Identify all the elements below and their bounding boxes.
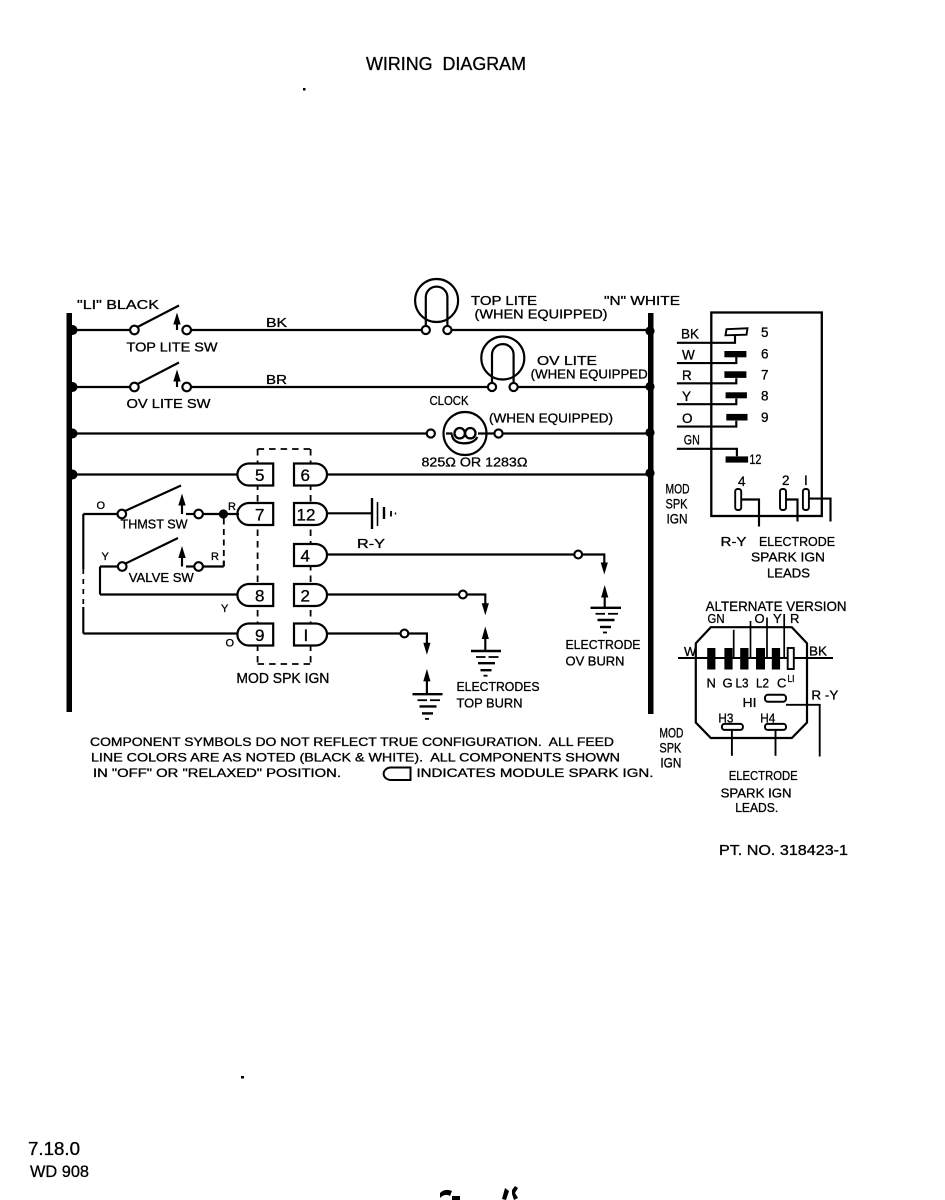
junction dots left rail <box>68 325 78 480</box>
wire row3 rail to clock <box>72 432 427 434</box>
svg-text:7: 7 <box>761 368 769 383</box>
alternate pin H4 <box>760 711 786 730</box>
svg-text:GN: GN <box>708 611 725 626</box>
svg-text:ELECTRODE: ELECTRODE <box>729 768 798 783</box>
svg-text:12: 12 <box>749 452 761 467</box>
svg-text:SPK: SPK <box>666 496 689 512</box>
svg-text:INDICATES MODULE SPARK IGN.: INDICATES MODULE SPARK IGN. <box>417 766 654 780</box>
svg-text:MOD: MOD <box>659 725 683 741</box>
alternate wire H1 to R-Y <box>786 705 820 757</box>
svg-text:SPK: SPK <box>659 740 682 756</box>
svg-text:L3: L3 <box>736 676 749 691</box>
terminal circle on pin1 lead <box>401 630 409 638</box>
alternate wire stub 2 <box>750 621 752 658</box>
svg-text:L2: L2 <box>756 676 769 691</box>
svg-text:5: 5 <box>761 325 769 340</box>
svg-text:WD 908: WD 908 <box>30 1162 89 1181</box>
switch VALVE SW <box>100 538 224 585</box>
wire row1 switch to lamp, label BK <box>191 329 422 331</box>
switch OV LITE SW <box>127 363 212 412</box>
alternate pin N <box>707 648 715 670</box>
connector pin 4 <box>735 474 746 510</box>
svg-text:SPARK IGN: SPARK IGN <box>751 550 825 565</box>
svg-text:C: C <box>777 676 786 691</box>
bullet module-pin symbol in note <box>384 768 411 781</box>
svg-text:8: 8 <box>255 587 264 606</box>
alternate pin L2 <box>756 648 765 670</box>
clock motor CLOCK <box>422 393 614 470</box>
lamp OV LITE <box>481 337 647 392</box>
wire pin 2 lead <box>327 593 460 595</box>
spark gap arrow down OV burn <box>601 563 608 575</box>
spark gap arrow down pin1 <box>423 643 430 655</box>
svg-text:I: I <box>804 473 808 488</box>
module pin 9 <box>237 624 273 646</box>
wire pin 4 R-Y lead <box>327 553 575 555</box>
wire pin 12 to chassis ground <box>327 512 372 514</box>
svg-text:ELECTRODE: ELECTRODE <box>759 534 835 549</box>
svg-text:IGN: IGN <box>660 755 681 771</box>
svg-text:"LI" BLACK: "LI" BLACK <box>77 297 159 312</box>
connector wire R <box>677 368 736 383</box>
svg-text:LI: LI <box>788 674 795 685</box>
svg-text:TOP BURN: TOP BURN <box>457 696 523 711</box>
svg-text:6: 6 <box>301 466 310 485</box>
alternate pin L3 <box>740 648 748 670</box>
svg-text:8: 8 <box>761 389 769 404</box>
svg-text:BK: BK <box>809 644 827 659</box>
alternate connector octagon outline <box>696 627 807 738</box>
connector pin 2 <box>780 473 790 510</box>
module pin 6 <box>294 464 327 486</box>
wire row1 lamp to right rail <box>452 329 650 331</box>
connector pin 7 <box>724 368 768 383</box>
wire pin1 lead corner down <box>408 634 427 645</box>
wire row1 rail to switch <box>72 329 130 331</box>
svg-text:O: O <box>755 611 765 626</box>
wire pin 1 lead <box>327 632 401 634</box>
connector pin 6 <box>724 347 768 362</box>
svg-text:ELECTRODE: ELECTRODE <box>566 637 641 652</box>
svg-text:7.18.0: 7.18.0 <box>28 1139 80 1159</box>
alternate label MOD SPK IGN <box>659 725 683 771</box>
module pin 7 <box>237 503 273 525</box>
switch TOP LITE SW <box>127 306 219 355</box>
svg-text:5: 5 <box>255 466 264 485</box>
connector wire from pin 4 <box>741 500 759 527</box>
module pin 12 <box>294 503 327 525</box>
svg-text:(WHEN EQUIPPED): (WHEN EQUIPPED) <box>489 411 613 426</box>
alternate pin H1 <box>743 695 787 710</box>
svg-text:O: O <box>682 411 693 426</box>
svg-text:(WHEN EQUIPPED: (WHEN EQUIPPED <box>531 367 648 382</box>
alternate pin G <box>724 648 732 670</box>
terminal circle on pin2 lead <box>459 591 467 599</box>
svg-text:Y: Y <box>102 551 110 563</box>
svg-text:OV LITE SW: OV LITE SW <box>127 396 212 411</box>
svg-text:7: 7 <box>255 506 264 525</box>
svg-text:THMST SW: THMST SW <box>121 517 189 532</box>
connector pin 1 <box>803 473 809 510</box>
ground electrode top burn <box>471 651 501 676</box>
svg-text:BK: BK <box>266 315 287 330</box>
switch THMST SW <box>83 486 239 532</box>
svg-text:(WHEN EQUIPPED): (WHEN EQUIPPED) <box>475 307 608 322</box>
svg-text:PT. NO. 318423-1: PT. NO. 318423-1 <box>719 842 848 859</box>
wire pin2 lead corner down <box>467 595 486 605</box>
svg-text:ELECTRODES: ELECTRODES <box>457 679 540 694</box>
svg-text:2: 2 <box>782 473 790 488</box>
connector pin 12 <box>726 452 762 467</box>
svg-text:R -Y: R -Y <box>811 688 838 703</box>
connector label MOD SPK IGN <box>666 481 690 527</box>
svg-text:MOD SPK IGN: MOD SPK IGN <box>236 671 329 687</box>
svg-text:BK: BK <box>681 327 699 342</box>
svg-text:R-Y: R-Y <box>721 534 747 549</box>
connector wire from pin 2 <box>786 500 798 522</box>
svg-text:CLOCK: CLOCK <box>430 393 469 408</box>
junction dots right rail <box>645 326 654 477</box>
svg-text:WIRING DIAGRAM: WIRING DIAGRAM <box>366 54 526 74</box>
wire R-Y lead corner down <box>582 555 604 565</box>
alternate pin C <box>772 648 780 670</box>
ground electrode OV burn <box>591 608 622 633</box>
connector wire from pin 1 <box>809 499 831 522</box>
note text block <box>90 735 654 780</box>
svg-text:GN: GN <box>684 432 700 447</box>
spark gap arrow up OV burn <box>601 585 608 608</box>
svg-text:Y: Y <box>773 611 782 626</box>
alternate pin H3 <box>718 711 743 730</box>
module pin 4 <box>294 544 327 566</box>
alternate wire Y stub <box>783 614 785 658</box>
terminal circle on R-Y lead <box>574 551 582 559</box>
svg-text:O: O <box>97 500 106 512</box>
alternate pin LI hollow <box>788 648 794 669</box>
svg-text:2: 2 <box>301 587 310 606</box>
alternate wire W entry <box>678 657 708 659</box>
lamp TOP LITE <box>415 279 607 334</box>
chassis ground at pin 12 <box>372 498 396 529</box>
ground electrode pin1 <box>413 694 443 719</box>
alternate wire O stub <box>766 618 768 659</box>
module MOD SPK IGN dashed outline <box>258 449 311 664</box>
wire row4 rail to module pin5 <box>72 473 239 475</box>
svg-text:IGN: IGN <box>667 511 688 527</box>
svg-text:Y: Y <box>682 389 691 404</box>
svg-text:"N" WHITE: "N" WHITE <box>604 293 680 308</box>
svg-text:R: R <box>682 368 692 383</box>
module pin 8 <box>237 584 273 606</box>
spark gap arrow up top burn <box>482 627 489 651</box>
svg-text:HI: HI <box>743 695 757 710</box>
svg-text:OV BURN: OV BURN <box>566 654 625 669</box>
connector wire Y <box>677 389 736 404</box>
wire row3 clock to right rail <box>503 432 649 434</box>
wire Y branch down to pin 8 row <box>100 567 239 616</box>
svg-text:4: 4 <box>738 474 746 489</box>
svg-text:LINE COLORS ARE AS NOTED (BLAC: LINE COLORS ARE AS NOTED (BLACK & WHITE)… <box>91 751 620 765</box>
spark gap arrow down top burn <box>482 603 489 615</box>
svg-text:G: G <box>723 676 733 691</box>
svg-text:R: R <box>790 611 799 626</box>
svg-text:12: 12 <box>297 506 316 525</box>
module pin 1 <box>294 624 327 646</box>
alternate wire pin row <box>708 657 794 659</box>
connector pin 5 <box>726 325 769 340</box>
svg-text:9: 9 <box>761 410 769 425</box>
speck under title <box>303 88 306 91</box>
wire row2 rail to switch <box>72 386 130 388</box>
alternate leads label <box>721 768 798 815</box>
alternate wire H4 lead <box>775 730 777 756</box>
connector wire O <box>677 411 736 427</box>
svg-text:Y: Y <box>221 603 229 615</box>
svg-text:R-Y: R-Y <box>357 536 385 551</box>
alternate pin labels N G L3 L2 C LI <box>707 674 795 691</box>
wire row2 lamp to right rail <box>518 386 649 388</box>
connector wire W <box>677 348 736 364</box>
connector wire BK <box>677 327 735 343</box>
wire row4 module pin6 to right rail <box>327 473 650 475</box>
svg-text:N: N <box>707 676 716 691</box>
connector wire GN <box>677 432 737 456</box>
svg-text:IN "OFF" OR "RELAXED" POSITION: IN "OFF" OR "RELAXED" POSITION. <box>93 766 341 780</box>
svg-text:VALVE SW: VALVE SW <box>129 570 195 585</box>
svg-text:I: I <box>304 626 309 645</box>
svg-text:W: W <box>682 348 695 363</box>
connector MOD SPK IGN box <box>711 313 822 517</box>
svg-text:TOP LITE SW: TOP LITE SW <box>127 340 219 355</box>
svg-text:9: 9 <box>255 626 264 645</box>
connector pin 8 <box>726 389 769 404</box>
alternate wire BK exit <box>794 657 833 659</box>
connector leads label <box>721 534 836 581</box>
wire O branch down left to pin 9 row <box>83 514 238 650</box>
svg-text:LEADS: LEADS <box>767 566 810 581</box>
module pin 5 <box>237 464 273 486</box>
alternate wire GN stub <box>733 630 735 658</box>
alternate wire H3 lead <box>731 730 733 756</box>
svg-text:LEADS.: LEADS. <box>735 800 778 815</box>
svg-text:W: W <box>684 644 697 659</box>
alternate top lead labels GN O Y R <box>708 611 800 626</box>
bus right rail N <box>648 313 654 714</box>
wire row2 switch to lamp, label BR <box>191 386 488 388</box>
svg-text:R: R <box>228 501 236 513</box>
svg-text:825Ω OR 1283Ω: 825Ω OR 1283Ω <box>422 455 528 470</box>
svg-text:SPARK IGN: SPARK IGN <box>721 786 792 801</box>
svg-text:BR: BR <box>266 372 287 387</box>
svg-text:MOD: MOD <box>666 481 690 497</box>
svg-text:R: R <box>211 551 219 563</box>
speck mid page <box>241 1076 244 1079</box>
connector pin 9 <box>726 410 768 425</box>
spark gap arrow up pin1 <box>423 669 430 694</box>
module pin 2 <box>294 584 327 606</box>
junction dot R node <box>219 509 228 518</box>
svg-text:6: 6 <box>761 347 769 362</box>
svg-text:4: 4 <box>301 547 310 566</box>
svg-text:O: O <box>226 638 235 650</box>
svg-text:COMPONENT SYMBOLS DO NOT REFLE: COMPONENT SYMBOLS DO NOT REFLECT TRUE CO… <box>90 735 614 749</box>
bottom edge partial glyphs <box>440 1186 518 1200</box>
wire dashed R node down to valve sw <box>223 519 225 562</box>
bus left rail L1 <box>67 313 73 712</box>
